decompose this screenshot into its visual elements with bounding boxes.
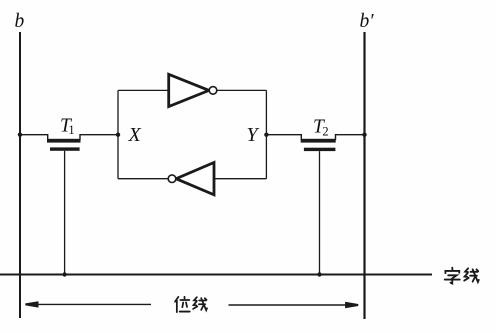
bit-line span arrow right (points right) xyxy=(229,304,348,306)
junction dot T2 gate / word line xyxy=(317,272,321,276)
word line (horizontal) xyxy=(0,274,432,276)
inverter G1 triangle (top, points right) xyxy=(169,74,209,106)
wire node X to loop (left vertical of latch loop) xyxy=(117,90,119,178)
label 位线 (bit line) xyxy=(175,297,207,312)
svg-text:Y: Y xyxy=(247,124,260,146)
svg-text:b: b xyxy=(15,11,25,32)
junction dot T1 gate / word line xyxy=(62,272,66,276)
wire T2 drain to bit line b' xyxy=(336,135,365,140)
wire T1 gate to word line xyxy=(64,151,66,275)
inverter G2 triangle (bottom, points left) xyxy=(176,163,214,195)
svg-text:b′: b′ xyxy=(360,11,375,32)
transistor T2 gate bar xyxy=(304,148,336,151)
bit line b (left vertical) xyxy=(19,32,21,318)
transistor T2 channel bar xyxy=(301,139,336,143)
wire bottom-right (Y to inverter G2 input) xyxy=(214,178,266,180)
bit-line span arrow left (points left) xyxy=(36,303,151,305)
wire T2 gate to word line xyxy=(319,151,321,274)
node X junction dot xyxy=(116,133,120,137)
junction dot b / row wire xyxy=(18,133,22,137)
label 字线 (word line) xyxy=(445,268,479,284)
transistor T1 gate bar xyxy=(50,147,80,150)
wire b to T1 source xyxy=(20,135,48,140)
junction dot b' / row wire xyxy=(362,133,366,137)
svg-text:X: X xyxy=(128,124,142,146)
wire loop right vertical (Y) xyxy=(265,90,267,178)
svg-text:T2: T2 xyxy=(313,117,329,139)
wire T1 drain to node X xyxy=(80,135,118,140)
inverter G2 output bubble xyxy=(168,175,176,183)
svg-text:T1: T1 xyxy=(60,115,75,137)
bit line b' (right vertical) xyxy=(363,32,365,319)
wire top-left (X to inverter G1 input) xyxy=(118,89,169,91)
wire G2 output to node X (bottom-left) xyxy=(118,178,168,180)
wire G1 output to node Y (top-right) xyxy=(217,89,267,91)
wire node Y to T2 source xyxy=(266,135,301,140)
inverter G1 output bubble xyxy=(209,87,217,95)
transistor T1 channel bar xyxy=(47,139,81,143)
node Y junction dot xyxy=(264,133,268,137)
